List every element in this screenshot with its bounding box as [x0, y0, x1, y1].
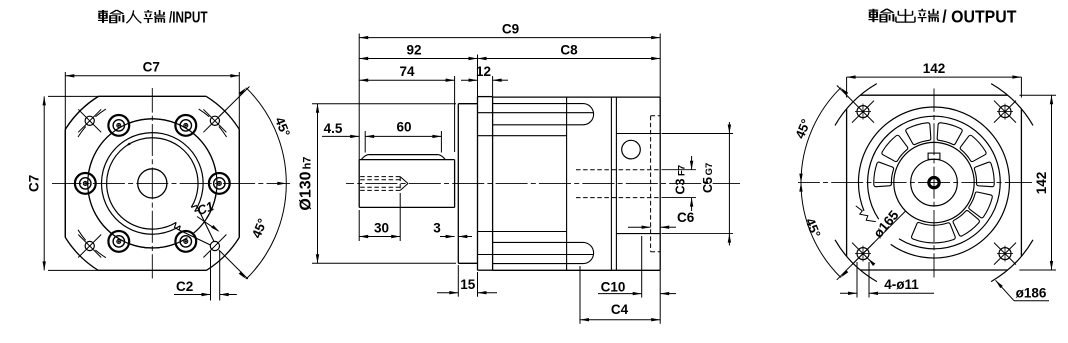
svg-text:F7: F7 [677, 165, 688, 176]
input sleeve outline [359, 160, 454, 208]
output vertical centerline [933, 89, 935, 278]
svg-text:60: 60 [396, 120, 411, 135]
title INPUT [98, 10, 208, 27]
45 labels input [249, 115, 294, 240]
gearbox body outline [493, 97, 661, 270]
svg-text:h7: h7 [302, 157, 314, 170]
svg-text:C2: C2 [176, 279, 193, 294]
svg-text:92: 92 [406, 42, 421, 57]
dim 45deg arc output [801, 88, 841, 278]
svg-text:C7: C7 [27, 175, 42, 192]
input boss circle (broken at bolt holes and slit) [88, 119, 217, 248]
svg-text:G7: G7 [704, 163, 715, 176]
input clamp upper jaw [191, 206, 199, 212]
input sleeve tapped hole hidden lines [360, 177, 408, 191]
output shaft keyway [928, 153, 940, 159]
input clamp ring outer arc [102, 133, 204, 235]
svg-text:15: 15 [460, 277, 476, 292]
input corner holes with crosses [78, 109, 226, 257]
dim 4-Ø11 [840, 262, 934, 298]
dim C7 left [27, 96, 46, 270]
hidden output recess [651, 116, 661, 252]
output square outline [847, 95, 1022, 270]
adapter plate 12mm [478, 97, 493, 271]
output 45 labels [792, 117, 824, 240]
input bolt holes 6x [75, 115, 230, 252]
input flange corner arc top-right [206, 96, 239, 129]
output shaft boss circle [911, 159, 958, 206]
dim C1 [195, 198, 220, 231]
dim Ø186 [996, 280, 1050, 300]
dim C2 [174, 251, 237, 301]
output break jag [856, 206, 876, 222]
svg-text:Ø130: Ø130 [298, 171, 315, 210]
pilot flange Ø130 [458, 104, 477, 264]
dim Ø130h7 [298, 104, 457, 264]
input BR corner hole cross [203, 235, 248, 280]
output vent slots short 8x [874, 123, 994, 236]
dim C6 [628, 210, 695, 229]
svg-text:C8: C8 [560, 42, 578, 57]
dim 30 [359, 193, 400, 241]
dim 142 top [847, 61, 1022, 98]
dim C9 [359, 22, 660, 160]
body output flange lines [611, 97, 616, 270]
output flange Ø186 corner arcs [835, 84, 1033, 282]
svg-text:74: 74 [399, 64, 415, 79]
45deg arc arrows [239, 88, 287, 279]
output 45 ext TL diagonal [837, 85, 852, 100]
svg-text:142: 142 [923, 61, 946, 76]
dim 142 right [1019, 95, 1056, 270]
input flange vertical centerline [151, 88, 153, 279]
dim 4.5 and 60 [322, 120, 441, 153]
svg-text:142: 142 [1034, 172, 1049, 195]
output 45 ext BL diagonal [837, 211, 906, 280]
output circle slot ring inner [894, 142, 974, 222]
svg-text:C5: C5 [701, 177, 715, 193]
svg-text:C6: C6 [677, 210, 695, 225]
output circle slot ring outer [868, 116, 1001, 249]
input flange corner arc bottom-right [206, 237, 239, 270]
dim C5G7 [662, 122, 734, 246]
output 45 arc arrows [799, 88, 848, 278]
svg-text:C4: C4 [611, 302, 629, 317]
input clamp slit lower edge [179, 230, 210, 245]
svg-text:C7: C7 [143, 60, 160, 75]
input 45 ext top-right diagonal [219, 87, 249, 117]
svg-text:C9: C9 [502, 22, 519, 37]
svg-text:30: 30 [374, 221, 389, 236]
hidden output bore [576, 170, 660, 198]
svg-text:4.5: 4.5 [324, 121, 343, 136]
body output recess lines [616, 134, 660, 234]
body top bolt slot [478, 104, 594, 136]
body bottom bolt slot [478, 232, 594, 264]
input flange corner arc bottom-left [65, 237, 98, 270]
svg-text:4-ø11: 4-ø11 [884, 277, 919, 292]
dim C3F7 [662, 156, 697, 211]
input flange horizontal centerline [52, 182, 290, 184]
input flange square outline with corner arcs [65, 96, 239, 270]
output vent slot wide bottom [912, 222, 956, 242]
input flange corner arc top-left [65, 96, 98, 129]
svg-text:C3: C3 [674, 178, 688, 194]
dim 3 [433, 221, 472, 239]
dim 74 [359, 64, 454, 152]
dim C4 [580, 266, 660, 324]
input sleeve clamp slot [361, 155, 445, 160]
output circle outer [858, 107, 1009, 258]
input pitch circle arcs [78, 109, 227, 258]
dim 45deg arc input [246, 88, 286, 279]
input clamp lower jaw [175, 222, 181, 230]
input clamp ring inner arc [107, 138, 198, 229]
svg-text:ø186: ø186 [1016, 286, 1047, 301]
svg-text:/ OUTPUT: / OUTPUT [942, 6, 1016, 26]
input clamp slit upper edge [199, 210, 214, 241]
output horizontal centerline [798, 182, 1032, 184]
body internal wall [566, 97, 568, 270]
output corner holes 4x [852, 101, 1016, 265]
svg-text:C10: C10 [601, 279, 626, 294]
middle horizontal centerline [346, 183, 740, 185]
input flange square outline [48, 72, 239, 270]
dim C7 top [65, 60, 239, 78]
title OUTPUT [868, 6, 1016, 26]
body plug hole [622, 140, 641, 159]
dim Ø165 [868, 207, 902, 266]
svg-text:12: 12 [476, 64, 491, 79]
svg-text:3: 3 [433, 221, 441, 236]
dim 12 [461, 64, 508, 97]
output shaft bore [929, 177, 939, 187]
dim C10 [598, 236, 676, 298]
input clamp arc direction arrow [126, 142, 131, 146]
dim 15 [437, 265, 497, 297]
dim 92 and C8 [359, 42, 660, 96]
svg-text:/INPUT: /INPUT [169, 10, 208, 27]
input center bore circle [138, 169, 167, 198]
